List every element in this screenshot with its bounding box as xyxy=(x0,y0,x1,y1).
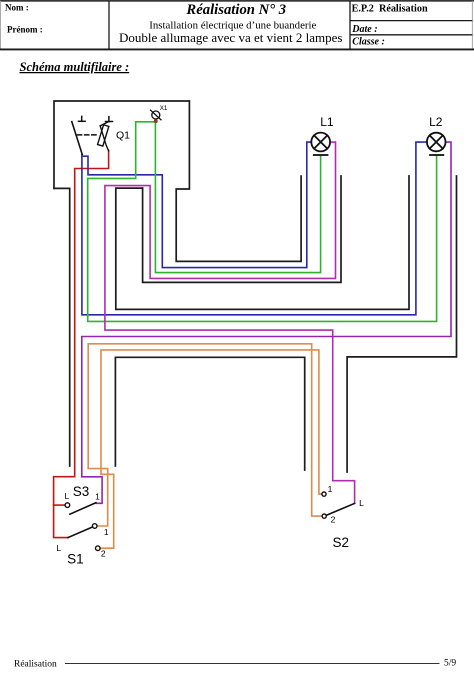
svg-text:1: 1 xyxy=(328,484,333,494)
wire: red stub to S3 L terminal xyxy=(54,504,65,506)
svg-text:2: 2 xyxy=(331,515,336,525)
svg-text:L2: L2 xyxy=(429,115,443,129)
switch S2 terminal 2 circle xyxy=(322,514,326,518)
lamp L1 earth bar xyxy=(314,154,328,156)
svg-text:X1: X1 xyxy=(160,105,168,112)
breaker Q1 cartridge body xyxy=(98,125,109,146)
lamp L2 earth bar xyxy=(430,154,443,156)
wire: blue neutral Q1 to L2 xyxy=(82,142,427,315)
wire: green earth X1 to L2 xyxy=(88,122,437,322)
switch S1 terminal 1 circle xyxy=(92,524,97,529)
wire: magenta L1 lamp feed to S2 common xyxy=(105,142,355,503)
wire: red phase Q1 to S3/S1 xyxy=(54,151,109,538)
svg-text:Schéma multifilaire :: Schéma multifilaire : xyxy=(20,60,130,74)
svg-text:E.P.2 Réalisation: E.P.2 Réalisation xyxy=(352,3,428,14)
svg-text:L1: L1 xyxy=(320,115,334,129)
wall: enclosure bottom-left bit + left conduit outer wall xyxy=(54,188,70,466)
svg-text:S3: S3 xyxy=(73,484,90,499)
wall: L2 conduit right wall + lower run right bottom wall + S2 conduit right wall xyxy=(347,176,456,472)
svg-text:1: 1 xyxy=(95,491,100,501)
switch S1 terminal 2 circle xyxy=(96,546,101,551)
breaker Q1 cartridge lead top xyxy=(100,122,109,126)
lamp L1 cross xyxy=(314,135,327,148)
switch S3 L terminal circle xyxy=(65,503,70,508)
footer rule xyxy=(65,663,440,665)
breaker Q1 cartridge axis xyxy=(100,126,108,151)
terminal X1 slash xyxy=(151,110,161,120)
svg-text:Q1: Q1 xyxy=(116,129,130,141)
breaker Q1 left pole lever xyxy=(72,122,82,155)
svg-text:L: L xyxy=(359,498,364,508)
diagram labels xyxy=(56,105,442,567)
breaker Q1 left pole terminal xyxy=(79,116,86,121)
wall: left conduit inner wall + lower run bottom wall + S2 conduit left wall xyxy=(115,357,304,470)
header table frame xyxy=(0,1,474,50)
switch S1 lever xyxy=(68,527,93,538)
switch S2 lever xyxy=(326,503,354,515)
svg-text:L: L xyxy=(56,543,61,553)
svg-text:Nom :: Nom : xyxy=(5,3,29,13)
header texts xyxy=(5,2,428,48)
breaker Q1 right pole terminal xyxy=(106,117,113,122)
wire: orange navette S1 term2 to S2 term1 xyxy=(100,350,322,548)
wire: orange navette S1 term1 to S2 term2 xyxy=(88,344,322,526)
lamp L1 circle xyxy=(311,133,330,152)
wall: pi right leg + upper run bottom wall + L1 conduit right wall xyxy=(143,176,341,282)
svg-text:Prénom :: Prénom : xyxy=(7,25,43,35)
wire: green earth X1 to L1 xyxy=(155,120,320,273)
svg-text:L: L xyxy=(65,491,70,501)
svg-text:Réalisation: Réalisation xyxy=(14,660,57,670)
breaker Q1 linkage dashed line xyxy=(77,134,98,136)
svg-text:5/9: 5/9 xyxy=(444,659,456,669)
svg-text:Réalisation N° 3: Réalisation N° 3 xyxy=(185,2,286,18)
switch S2 terminal 1 circle xyxy=(322,492,326,496)
wire: blue neutral Q1 to L1 xyxy=(82,142,311,268)
lamp L2 cross xyxy=(430,135,443,148)
lamp L2 circle xyxy=(427,133,446,152)
svg-text:2: 2 xyxy=(101,549,106,559)
wire: purple S3 to L2 lamp feed xyxy=(82,142,451,503)
svg-text:S2: S2 xyxy=(333,535,350,550)
svg-text:Date :: Date : xyxy=(351,24,377,35)
svg-text:Classe :: Classe : xyxy=(352,37,385,48)
terminal X1 circle xyxy=(152,111,160,119)
terminal X1 junction dot xyxy=(154,119,158,123)
footer texts xyxy=(14,659,456,670)
wall: Q1 enclosure top/right + drop to upper run + L1 conduit left wall xyxy=(54,101,301,261)
svg-text:1: 1 xyxy=(104,527,109,537)
wall: pi-divider + lower run top wall + L2 conduit left wall xyxy=(116,176,409,309)
switch S3 lever xyxy=(70,503,96,515)
svg-text:S1: S1 xyxy=(67,552,84,567)
svg-text:Double allumage avec va et vie: Double allumage avec va et vient 2 lampe… xyxy=(119,30,342,45)
